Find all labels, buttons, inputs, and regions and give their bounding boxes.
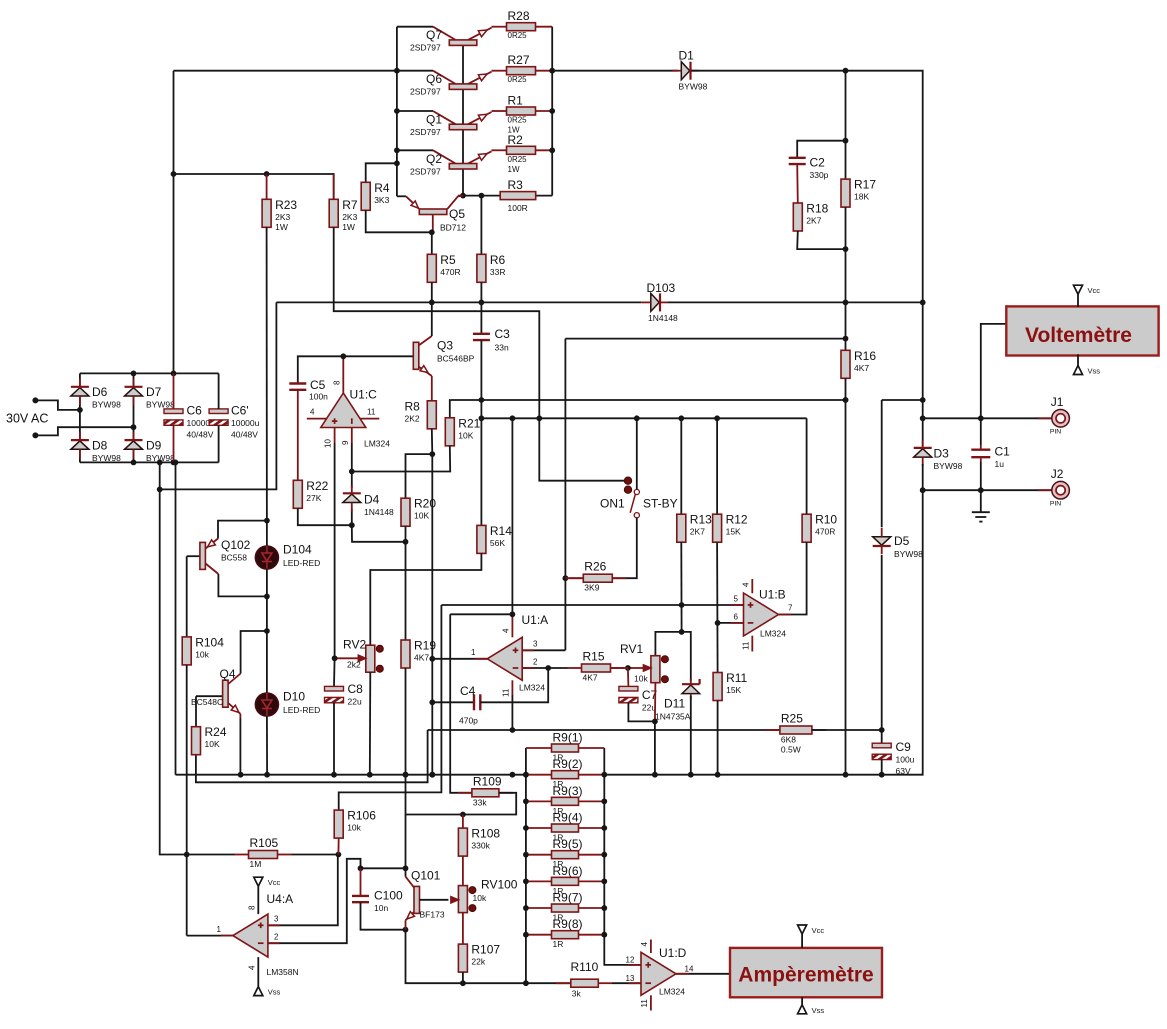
wire R7 bottom	[334, 227, 540, 418]
junction ladder right row 3	[601, 798, 607, 804]
wire C5 top	[298, 356, 344, 383]
diode D3 (BYW98)	[914, 440, 963, 471]
wire R105 right to R106	[292, 854, 339, 856]
svg-text:Vcc: Vcc	[1088, 286, 1101, 295]
resistor R17	[841, 178, 876, 208]
resistor R9(6)	[526, 864, 604, 896]
wire RV1 bottom rail to ground	[654, 721, 656, 774]
wire Amperemetre Vss stem	[801, 997, 803, 1004]
resistor R110	[556, 960, 612, 999]
svg-text:U1:D: U1:D	[659, 946, 687, 960]
wire D11 bottom	[690, 696, 692, 775]
wire R23 top lead	[266, 174, 268, 199]
polarized capacitor C6	[164, 404, 215, 440]
op-amp U1:C pin 9 inverting input	[341, 428, 352, 472]
wire ground rail left segment	[176, 774, 526, 776]
wire U1:B pin5 net to R106 riser	[441, 604, 681, 606]
wire collector row Q2	[397, 149, 433, 151]
diode D103 (1N4148)	[642, 281, 678, 323]
junction D7 top rail	[131, 371, 137, 377]
wire R21 bottom	[352, 446, 450, 472]
svg-text:10K: 10K	[458, 430, 473, 440]
junction D11 on ground rail right	[688, 772, 694, 778]
junction x922 y302	[920, 300, 926, 306]
junction ground riser	[173, 460, 179, 466]
junction ladder left bottom	[523, 980, 529, 986]
wire ladder right rail	[604, 748, 640, 965]
svg-text:Ampèremètre: Ampèremètre	[738, 963, 873, 986]
junction left rail y489	[157, 487, 163, 493]
wire R105 left	[187, 854, 235, 856]
svg-text:10k: 10k	[634, 674, 648, 684]
resistor R104	[182, 635, 224, 665]
junction U1:B pin5	[679, 602, 685, 608]
op-amp U4:A pin 1 output	[187, 925, 233, 936]
op-amp U1:B pin 5 noninverting	[682, 595, 744, 606]
transistor Q4 (BC548C NPN)	[191, 631, 267, 775]
wire Q102 emitter row	[218, 521, 267, 539]
wire R13 bottom	[680, 542, 682, 632]
svg-text:11: 11	[367, 408, 376, 417]
op-amp U1:C pin 10 noninverting input	[324, 428, 335, 659]
svg-text:R109: R109	[473, 774, 502, 788]
wire collector row Q6	[397, 70, 433, 72]
wire bridge D7 D9 rail	[133, 373, 135, 462]
resistor R9(7)	[526, 891, 604, 923]
wire R7 top lead red	[333, 174, 335, 199]
svg-text:BC558: BC558	[221, 553, 247, 563]
svg-text:2: 2	[533, 658, 538, 667]
potentiometer RV100	[451, 878, 518, 913]
svg-text:1N4148: 1N4148	[364, 507, 394, 517]
svg-text:PIN: PIN	[1050, 501, 1061, 508]
svg-text:R110: R110	[571, 960, 599, 974]
wire R14 bottom to RV2 top	[370, 553, 481, 645]
op-amp U1:D pin 14 output	[676, 964, 730, 974]
junction D10 on ground rail	[264, 772, 270, 778]
polarized capacitor C9	[872, 740, 914, 776]
svg-text:33k: 33k	[473, 797, 487, 807]
svg-text:C100: C100	[374, 889, 403, 903]
svg-text:0R25: 0R25	[508, 155, 528, 164]
junction R108 top	[460, 812, 466, 818]
junction D104 top Q102 emitter	[264, 518, 270, 524]
svg-text:R11: R11	[726, 671, 747, 685]
wire C3 bottom	[480, 340, 482, 418]
resistor R107	[458, 943, 500, 973]
wire R23 rail down to LED chain	[266, 227, 268, 546]
junction RV2 wiper C8	[332, 655, 338, 661]
svg-text:1W: 1W	[275, 222, 288, 232]
diode D8 (BYW98)	[71, 432, 121, 463]
svg-text:10k: 10k	[473, 893, 487, 903]
svg-text:3K3: 3K3	[374, 195, 389, 205]
junction x512 on J1 wire	[510, 415, 516, 421]
svg-text:Vss: Vss	[268, 988, 281, 997]
svg-text:5: 5	[734, 595, 739, 604]
capacitor C100 10n	[352, 889, 403, 914]
op-amp U1:D pin 11 stub	[640, 995, 651, 1010]
junction RV1 bottom on ground rail right	[652, 772, 658, 778]
junction y338 wire	[843, 336, 849, 342]
wire R8 bottom to R20 top	[406, 454, 433, 498]
power symbol Vcc U4:A Vcc	[254, 877, 281, 887]
svg-text:J1: J1	[1051, 395, 1064, 409]
svg-text:Q1: Q1	[426, 113, 442, 127]
op-amp U1:C pin 8 output	[333, 356, 344, 393]
wire C6 leads	[173, 373, 175, 462]
wire C8 top lead	[333, 658, 336, 686]
svg-text:10k: 10k	[347, 823, 361, 833]
svg-text:Q6: Q6	[426, 72, 442, 86]
junction R25 C9 D5	[879, 727, 885, 733]
junction ladder left row 8	[523, 932, 529, 938]
resistor R15	[568, 650, 625, 683]
wire C7 bottom to RV1 bottom	[628, 703, 655, 722]
wire D4 cathode stub	[351, 472, 353, 489]
junction R105 right R106 pin3	[336, 852, 342, 858]
svg-text:10n: 10n	[374, 903, 388, 913]
svg-text:BYW98: BYW98	[146, 400, 175, 410]
junction left rail y150	[394, 147, 400, 153]
svg-text:D104: D104	[283, 543, 312, 557]
wire R11 bottom	[717, 701, 719, 775]
junction D104 bottom	[264, 594, 270, 600]
junction switch rail on J1 wire	[634, 415, 640, 421]
op-amp U1:A pin 1 output	[432, 648, 487, 659]
wire x441 riser down to R106 wire	[339, 605, 442, 810]
svg-text:8: 8	[333, 380, 342, 385]
wire R107 bottom	[462, 972, 464, 983]
svg-text:1u: 1u	[995, 459, 1005, 469]
junction ladder left row 3	[523, 798, 529, 804]
wire x846 rail upper	[845, 302, 847, 350]
svg-text:R4: R4	[374, 181, 390, 195]
op-amp U1:A pin 2 inverting	[533, 658, 538, 667]
wire R22 bottom	[298, 508, 352, 525]
wire D3 anode to J2 row	[922, 464, 924, 490]
svg-text:D10: D10	[283, 690, 305, 704]
wire C1 rail	[980, 418, 982, 490]
resistor R1	[492, 94, 552, 135]
svg-text:1: 1	[471, 648, 476, 657]
wire y338 from x565 riser	[565, 338, 845, 340]
resistor R23	[262, 198, 297, 232]
junction ladder right row 6	[601, 878, 607, 884]
svg-text:RV100: RV100	[481, 878, 518, 892]
transistor Q3 (BC546BP NPN)	[343, 302, 474, 400]
transistor Q101 (BF173 NPN)	[405, 869, 449, 930]
resistor R4	[361, 181, 390, 211]
junction left rail y111	[394, 108, 400, 114]
resistor R109	[458, 774, 513, 807]
op-amp U1:A polarity marks	[513, 648, 519, 669]
wire x450 from pin4 wire down to R109	[450, 614, 472, 793]
wire C2 to R18	[796, 164, 799, 203]
svg-text:C9: C9	[896, 740, 912, 754]
wire bridge left rail	[79, 373, 81, 462]
svg-text:R104: R104	[195, 635, 224, 649]
junction AC1 bridge	[77, 407, 83, 413]
resistor R9(5)	[526, 837, 604, 869]
svg-text:R14: R14	[490, 524, 512, 538]
svg-text:R107: R107	[471, 943, 500, 957]
wire C2 top	[797, 141, 845, 158]
junction D1 output / C2 branch	[843, 68, 849, 74]
svg-text:10000u: 10000u	[231, 418, 260, 428]
svg-text:U1:B: U1:B	[759, 588, 786, 602]
svg-text:1R: 1R	[553, 939, 564, 949]
resistor R2	[492, 133, 552, 174]
wire R12 top lead	[716, 418, 718, 514]
junction x846 y400	[843, 397, 849, 403]
wire R17 bottom	[845, 207, 847, 302]
svg-text:4: 4	[742, 582, 751, 587]
svg-text:RV2: RV2	[343, 638, 366, 652]
svg-text:BYW98: BYW98	[92, 400, 121, 410]
wire left rail of output bank	[396, 27, 398, 197]
diode D1 (BYW98)	[672, 49, 707, 92]
resistor R10	[802, 513, 837, 543]
resistor R12	[713, 513, 748, 543]
svg-text:R27: R27	[508, 53, 530, 67]
junction right rail y111	[549, 108, 555, 114]
svg-text:R9(4): R9(4)	[553, 811, 583, 825]
resistor R9(3)	[526, 784, 604, 816]
capacitor C2 330p	[789, 156, 829, 181]
wire R110 to U1:D pin13	[612, 982, 641, 984]
svg-text:R18: R18	[806, 202, 828, 216]
junction R5/Q3 collector	[429, 300, 435, 306]
wire C1 ground stem	[980, 490, 982, 512]
junction U1:A output on R8 rail	[429, 656, 435, 662]
junction R20 rail jog	[403, 539, 409, 545]
op-amp U4:A pin 8 Vcc	[248, 886, 259, 914]
junction R11 on ground rail right	[715, 772, 721, 778]
wire AC terminal 2	[35, 427, 133, 435]
junction J2 row on x922	[920, 487, 926, 493]
wire RV1 bottom lead	[654, 683, 657, 722]
wire R3 row	[458, 195, 552, 197]
op-amp U1:B pin 11 stub	[742, 636, 753, 652]
svg-text:33n: 33n	[495, 343, 509, 353]
svg-text:56K: 56K	[490, 538, 505, 548]
polarized capacitor C8	[325, 682, 364, 707]
wire C4 left lead	[432, 701, 474, 703]
junction right rail y150	[549, 147, 555, 153]
svg-text:LED-RED: LED-RED	[283, 705, 320, 715]
svg-text:11: 11	[640, 999, 649, 1008]
junction x922 y400	[920, 397, 926, 403]
svg-text:1W: 1W	[508, 165, 520, 174]
wire R13 top lead	[680, 418, 682, 514]
wire x846 rail lower	[845, 378, 847, 774]
junction x846 rail on ground rail right	[843, 772, 849, 778]
svg-text:D103: D103	[647, 281, 676, 295]
node 30V AC terminal 1	[32, 397, 38, 403]
resistor R6	[477, 253, 506, 283]
wire R10 top lead	[806, 418, 808, 514]
wire R20 bottom rail	[405, 526, 407, 640]
wire pin3 riser	[268, 855, 338, 926]
junction R104 rail R105	[184, 852, 190, 858]
wire R25 right	[812, 729, 882, 731]
svg-text:2SD797: 2SD797	[410, 87, 441, 97]
wire bridge top rail	[80, 372, 219, 374]
wire R4 bottom to Q5 base	[366, 210, 432, 232]
resistor R20	[401, 497, 436, 527]
junction C1 bottom J2 row	[978, 487, 984, 493]
svg-text:C4: C4	[460, 684, 476, 698]
svg-text:R7: R7	[342, 198, 358, 212]
svg-text:4: 4	[248, 965, 257, 970]
resistor R7	[329, 198, 358, 232]
svg-text:D4: D4	[364, 493, 380, 507]
svg-text:Q2: Q2	[426, 152, 442, 166]
wire RV100 to R107	[462, 913, 464, 945]
op-amp U1:A pin 3 noninverting	[522, 640, 565, 651]
subcircuit box Amperemetre	[730, 948, 882, 997]
wire bridge negative riser	[160, 302, 277, 489]
capacitor C4 470p	[459, 684, 480, 726]
op-amp U1:C pin 11 stub	[360, 408, 379, 419]
power symbol Vss Voltemetre Vss	[1074, 366, 1101, 376]
svg-text:R9(2): R9(2)	[553, 757, 583, 771]
LED D104	[255, 543, 320, 570]
svg-text:LM358N: LM358N	[267, 967, 299, 977]
svg-text:R10: R10	[815, 513, 837, 527]
wire switch rail top	[636, 418, 638, 489]
junction C4 left	[429, 699, 435, 705]
op-amp U4:A pin 3 label	[274, 915, 279, 924]
svg-text:C2: C2	[810, 156, 826, 170]
resistor R9(8)	[526, 917, 604, 949]
svg-text:4: 4	[502, 628, 511, 633]
svg-text:C3: C3	[495, 327, 511, 341]
wire C9 bottom	[881, 760, 883, 775]
wire R6 top lead	[480, 196, 482, 255]
resistor R108	[458, 827, 500, 857]
junction pin11 rail on ground rail	[510, 772, 516, 778]
svg-text:470R: 470R	[815, 527, 835, 537]
wire switch common down to R26	[610, 518, 637, 578]
svg-text:R3: R3	[508, 178, 524, 192]
svg-text:R13: R13	[690, 513, 712, 527]
junction ladder right row 8	[601, 932, 607, 938]
wire C100 node to collector rail	[361, 867, 406, 869]
svg-text:7: 7	[788, 604, 793, 613]
wire pin4 connection	[450, 613, 512, 615]
junction U1:B pin6	[715, 620, 721, 626]
svg-text:BYW98: BYW98	[894, 549, 923, 559]
svg-text:R28: R28	[508, 9, 530, 23]
potentiometer RV1	[620, 642, 669, 684]
svg-text:330k: 330k	[471, 841, 490, 851]
wire R19 bottom rail	[405, 668, 407, 877]
zener diode D11 (1N4735A)	[655, 679, 700, 722]
diode D9 (BYW98)	[125, 432, 176, 463]
power symbol Vss Amperemetre Vss	[798, 1005, 825, 1015]
wire C4 right to pin2	[480, 668, 548, 702]
junction R19 rail on ground rail	[403, 772, 409, 778]
wire R12 bottom	[716, 542, 719, 672]
junction RV1 D11 top wire	[679, 629, 685, 635]
op-amp U1:A pin 11	[502, 680, 513, 730]
junction R19 rail on ground rail	[403, 772, 409, 778]
svg-text:R16: R16	[854, 349, 876, 363]
svg-text:U4:A: U4:A	[267, 892, 294, 906]
wire Amperemetre Vcc stem	[801, 934, 803, 948]
svg-text:R106: R106	[347, 809, 376, 823]
node 30V AC terminal 2	[32, 432, 38, 438]
wire x565 riser	[564, 339, 566, 651]
wire R15 to RV1 wiper	[611, 667, 628, 669]
svg-text:10: 10	[324, 439, 333, 448]
svg-text:2K7: 2K7	[806, 216, 821, 226]
capacitor C5 100n	[289, 378, 328, 402]
svg-text:2K3: 2K3	[342, 212, 357, 222]
op-amp U1:C pin 4 stub	[307, 408, 327, 419]
junction ladder right row 5	[601, 852, 607, 858]
svg-text:C1: C1	[995, 445, 1011, 459]
resistor R11	[713, 671, 747, 701]
junction R13 on J1 wire	[678, 415, 684, 421]
op-amp U1:A pin lead stubs	[475, 650, 534, 668]
svg-text:R9(1): R9(1)	[553, 731, 583, 745]
op-amp U1:D pin lead stubs	[629, 965, 690, 983]
op-amp U4:A pin 4 Vss	[248, 957, 259, 987]
svg-text:BYW98: BYW98	[934, 461, 963, 471]
svg-text:470p: 470p	[459, 716, 478, 726]
resistor R21	[445, 416, 480, 446]
junction C100 top collector node	[358, 865, 364, 871]
op-amp U1:B	[744, 588, 787, 639]
junction pin4	[510, 611, 516, 617]
wire supply row y174	[174, 174, 334, 199]
connector J2	[1039, 467, 1070, 508]
svg-text:1W: 1W	[342, 222, 355, 232]
transistor Q7 (2SD797 NPN)	[410, 27, 493, 53]
resistor R106	[334, 809, 376, 839]
diode D4 (1N4148)	[343, 485, 394, 517]
wire collector row Q7	[397, 26, 433, 28]
junction C8 on ground rail	[331, 772, 337, 778]
svg-text:27K: 27K	[306, 493, 321, 503]
svg-text:R25: R25	[781, 712, 803, 726]
svg-text:4K7: 4K7	[854, 363, 869, 373]
svg-text:R9(7): R9(7)	[553, 891, 583, 905]
junction x846 y302	[843, 300, 849, 306]
junction collector node C100	[403, 865, 409, 871]
wire D10 bottom	[266, 716, 268, 775]
junction ladder right row 4	[601, 825, 607, 831]
wire positive rail riser x173	[173, 71, 175, 374]
wire D5 bottom rail	[881, 555, 883, 743]
connector J1	[1039, 395, 1070, 436]
svg-text:Q5: Q5	[449, 207, 465, 221]
svg-text:BF173: BF173	[420, 910, 445, 920]
svg-text:LED-RED: LED-RED	[283, 558, 320, 568]
resistor R14	[477, 524, 512, 554]
svg-text:U1:A: U1:A	[522, 613, 549, 627]
polarized capacitor C7	[619, 686, 658, 712]
svg-text:1N4148: 1N4148	[648, 313, 678, 323]
resistor R28	[492, 9, 552, 40]
resistor R27	[492, 53, 552, 84]
wire C2 R17 branch top	[845, 71, 847, 141]
svg-text:R9(8): R9(8)	[553, 917, 583, 931]
svg-text:R15: R15	[583, 650, 605, 664]
